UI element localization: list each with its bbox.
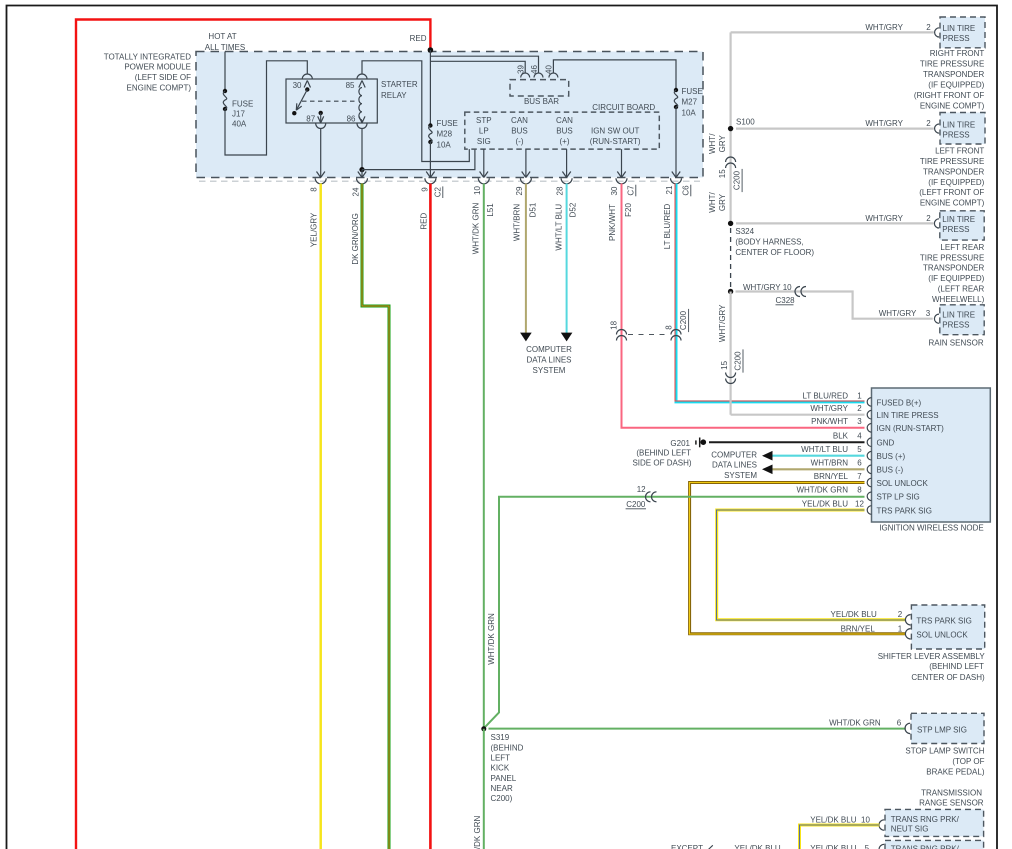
svg-text:TRANSPONDER: TRANSPONDER <box>923 167 985 176</box>
svg-text:86: 86 <box>347 115 356 124</box>
svg-text:C328: C328 <box>776 296 796 305</box>
svg-text:28: 28 <box>556 186 565 195</box>
svg-text:WHT/BRN: WHT/BRN <box>513 204 522 242</box>
svg-text:BUS (+): BUS (+) <box>877 452 906 461</box>
svg-text:(IF EQUIPPED): (IF EQUIPPED) <box>928 178 984 187</box>
svg-text:LEFT REAR: LEFT REAR <box>940 243 984 252</box>
svg-text:LIN TIRE: LIN TIRE <box>942 215 975 224</box>
svg-text:DATA LINES: DATA LINES <box>712 461 757 470</box>
svg-text:1: 1 <box>898 624 903 633</box>
svg-text:LEFT FRONT: LEFT FRONT <box>935 147 984 156</box>
svg-text:12: 12 <box>855 499 864 508</box>
svg-text:WHT/LT BLU: WHT/LT BLU <box>801 445 848 454</box>
svg-text:15: 15 <box>720 360 729 369</box>
svg-text:S100: S100 <box>736 118 755 127</box>
svg-text:LIN TIRE: LIN TIRE <box>943 24 976 33</box>
svg-text:YEL/GRY: YEL/GRY <box>310 212 319 247</box>
svg-text:GRY: GRY <box>718 193 727 211</box>
svg-text:YEL/DK BLU: YEL/DK BLU <box>734 844 780 849</box>
svg-text:8: 8 <box>857 486 862 495</box>
svg-text:87: 87 <box>306 115 315 124</box>
svg-text:10: 10 <box>473 186 482 195</box>
svg-text:10: 10 <box>861 815 870 824</box>
svg-text:LT BLU/RED: LT BLU/RED <box>803 391 849 400</box>
svg-text:ENGINE COMPT): ENGINE COMPT) <box>920 199 985 208</box>
svg-text:30: 30 <box>293 81 302 90</box>
svg-text:WHT/GRY: WHT/GRY <box>865 23 903 32</box>
svg-text:M27: M27 <box>682 98 698 107</box>
svg-text:3: 3 <box>926 309 931 318</box>
svg-text:WHT/GRY: WHT/GRY <box>865 214 903 223</box>
svg-text:WHT/DK GRN: WHT/DK GRN <box>829 719 881 728</box>
svg-text:YEL/DK BLU: YEL/DK BLU <box>810 844 856 849</box>
svg-text:12: 12 <box>637 485 646 494</box>
svg-text:PRESS: PRESS <box>942 225 969 234</box>
svg-text:C200): C200) <box>491 794 513 803</box>
svg-text:29: 29 <box>515 186 524 195</box>
svg-text:WHT/BRN: WHT/BRN <box>811 459 849 468</box>
svg-text:30: 30 <box>610 186 619 195</box>
svg-text:(IF EQUIPPED): (IF EQUIPPED) <box>928 80 984 89</box>
svg-text:2: 2 <box>926 119 931 128</box>
svg-text:18: 18 <box>610 320 619 329</box>
svg-text:(-): (-) <box>516 137 524 146</box>
svg-text:RANGE SENSOR: RANGE SENSOR <box>919 799 984 808</box>
svg-text:STARTER: STARTER <box>381 80 418 89</box>
svg-text:S319: S319 <box>491 733 510 742</box>
svg-text:3: 3 <box>857 417 862 426</box>
svg-text:STP: STP <box>476 116 492 125</box>
svg-text:YEL/DK BLU: YEL/DK BLU <box>810 815 856 824</box>
svg-text:D52: D52 <box>569 202 578 217</box>
svg-text:BUS (-): BUS (-) <box>877 466 904 475</box>
svg-text:C200: C200 <box>626 500 646 509</box>
svg-text:DK GRN/ORG: DK GRN/ORG <box>351 213 360 265</box>
svg-text:C2: C2 <box>433 187 442 198</box>
svg-text:WHT/DK GRN: WHT/DK GRN <box>487 613 496 665</box>
svg-text:7: 7 <box>857 472 862 481</box>
svg-text:46: 46 <box>530 65 539 74</box>
svg-text:LP: LP <box>479 126 489 135</box>
svg-text:C200: C200 <box>734 351 743 371</box>
svg-text:85: 85 <box>346 81 355 90</box>
svg-text:DATA LINES: DATA LINES <box>526 356 571 365</box>
svg-text:KICK: KICK <box>491 764 510 773</box>
svg-text:STOP LAMP SWITCH: STOP LAMP SWITCH <box>905 747 984 756</box>
svg-text:CENTER OF DASH): CENTER OF DASH) <box>911 673 985 682</box>
svg-text:40: 40 <box>545 65 554 74</box>
svg-text:24: 24 <box>352 187 361 196</box>
svg-text:ALL TIMES: ALL TIMES <box>205 43 245 52</box>
svg-text:TIRE PRESSURE: TIRE PRESSURE <box>920 253 984 262</box>
svg-text:WHT/DK GRN: WHT/DK GRN <box>472 203 481 255</box>
svg-text:2: 2 <box>926 23 931 32</box>
svg-text:NEAR: NEAR <box>491 784 513 793</box>
svg-text:10A: 10A <box>682 109 697 118</box>
svg-text:YEL/DK BLU: YEL/DK BLU <box>802 499 848 508</box>
svg-text:WHT/: WHT/ <box>708 192 717 213</box>
svg-text:FUSE: FUSE <box>437 119 458 128</box>
svg-text:BRN/YEL: BRN/YEL <box>841 624 876 633</box>
svg-text:FUSE: FUSE <box>682 87 703 96</box>
svg-text:COMPUTER: COMPUTER <box>526 345 572 354</box>
svg-text:J17: J17 <box>232 109 245 118</box>
svg-text:WHT/GRY: WHT/GRY <box>718 304 727 342</box>
svg-text:F20: F20 <box>624 203 633 217</box>
svg-text:8: 8 <box>310 187 319 192</box>
svg-text:FUSED B(+): FUSED B(+) <box>877 398 922 407</box>
svg-text:TRANS RNG PRK/: TRANS RNG PRK/ <box>891 845 960 849</box>
svg-text:G201: G201 <box>670 439 690 448</box>
svg-text:STP LMP SIG: STP LMP SIG <box>917 726 967 735</box>
svg-text:(+): (+) <box>560 137 570 146</box>
svg-text:WHT/GRY: WHT/GRY <box>865 119 903 128</box>
svg-text:RELAY: RELAY <box>381 91 407 100</box>
svg-text:TIRE PRESSURE: TIRE PRESSURE <box>920 157 984 166</box>
svg-text:PRESS: PRESS <box>943 34 970 43</box>
svg-text:WHT/DK GRN: WHT/DK GRN <box>473 816 482 849</box>
svg-text:(BEHIND LEFT: (BEHIND LEFT <box>636 448 691 457</box>
svg-text:C200: C200 <box>679 310 688 330</box>
svg-text:LIN TIRE: LIN TIRE <box>943 120 976 129</box>
svg-text:4: 4 <box>857 432 862 441</box>
svg-text:15: 15 <box>718 169 727 178</box>
svg-text:M28: M28 <box>437 129 453 138</box>
svg-text:RAIN SENSOR: RAIN SENSOR <box>928 339 983 348</box>
svg-text:LEFT: LEFT <box>491 754 511 763</box>
svg-text:RIGHT FRONT: RIGHT FRONT <box>930 49 985 58</box>
svg-text:WHT/DK GRN: WHT/DK GRN <box>796 486 848 495</box>
svg-text:1: 1 <box>857 391 862 400</box>
svg-text:(LEFT SIDE OF: (LEFT SIDE OF <box>135 73 191 82</box>
svg-text:6: 6 <box>897 719 902 728</box>
svg-text:21: 21 <box>665 185 674 194</box>
svg-text:BUS: BUS <box>511 126 527 135</box>
svg-text:TRS PARK SIG: TRS PARK SIG <box>916 616 971 625</box>
svg-text:BRN/YEL: BRN/YEL <box>814 472 849 481</box>
svg-text:RED: RED <box>410 34 427 43</box>
svg-text:SOL UNLOCK: SOL UNLOCK <box>877 479 929 488</box>
svg-text:(TOP OF: (TOP OF <box>952 757 984 766</box>
svg-text:WHEELWELL): WHEELWELL) <box>932 295 985 304</box>
svg-text:TRANSPONDER: TRANSPONDER <box>923 70 985 79</box>
svg-text:(RIGHT FRONT OF: (RIGHT FRONT OF <box>914 91 984 100</box>
svg-text:TRANS RNG PRK/: TRANS RNG PRK/ <box>891 815 960 824</box>
svg-text:TIRE PRESSURE: TIRE PRESSURE <box>920 59 984 68</box>
svg-text:SYSTEM: SYSTEM <box>724 471 757 480</box>
svg-text:L51: L51 <box>486 203 495 217</box>
svg-text:SIG: SIG <box>477 137 491 146</box>
svg-text:2: 2 <box>926 214 931 223</box>
svg-text:(LEFT REAR: (LEFT REAR <box>938 285 985 294</box>
svg-text:LIN TIRE: LIN TIRE <box>942 310 975 319</box>
svg-text:CAN: CAN <box>511 116 528 125</box>
svg-text:TRANSPONDER: TRANSPONDER <box>923 264 985 273</box>
svg-text:WHT/GRY: WHT/GRY <box>810 404 848 413</box>
svg-text:WHT/: WHT/ <box>708 133 717 154</box>
svg-text:(BEHIND: (BEHIND <box>491 743 524 752</box>
svg-text:GRY: GRY <box>718 135 727 153</box>
svg-text:2: 2 <box>857 404 862 413</box>
svg-text:PRESS: PRESS <box>942 321 969 330</box>
svg-text:C6: C6 <box>681 185 690 196</box>
svg-text:BUS BAR: BUS BAR <box>524 97 559 106</box>
svg-text:C200: C200 <box>733 170 742 190</box>
svg-text:PNK/WHT: PNK/WHT <box>608 204 617 241</box>
svg-text:40A: 40A <box>232 120 247 129</box>
svg-text:(LEFT FRONT OF: (LEFT FRONT OF <box>919 188 984 197</box>
svg-text:CENTER OF FLOOR): CENTER OF FLOOR) <box>735 248 814 257</box>
svg-text:C7: C7 <box>626 185 635 196</box>
svg-text:WHT/LT BLU: WHT/LT BLU <box>555 204 564 251</box>
svg-text:8: 8 <box>665 325 674 330</box>
svg-text:WHT/GRY: WHT/GRY <box>879 309 917 318</box>
svg-text:LT BLU/RED: LT BLU/RED <box>663 204 672 250</box>
svg-text:5: 5 <box>857 445 862 454</box>
svg-text:TRANSMISSION: TRANSMISSION <box>921 789 982 798</box>
svg-text:ENGINE COMPT): ENGINE COMPT) <box>920 101 985 110</box>
svg-text:(BEHIND LEFT: (BEHIND LEFT <box>929 662 984 671</box>
svg-text:TOTALLY INTEGRATED: TOTALLY INTEGRATED <box>104 52 192 61</box>
svg-text:BLK: BLK <box>833 432 849 441</box>
svg-text:PANEL: PANEL <box>491 774 517 783</box>
svg-text:CAN: CAN <box>556 116 573 125</box>
svg-text:PNK/WHT: PNK/WHT <box>811 417 848 426</box>
svg-text:SYSTEM: SYSTEM <box>533 366 566 375</box>
svg-text:S324: S324 <box>735 227 754 236</box>
svg-text:IGN SW OUT: IGN SW OUT <box>591 126 640 135</box>
svg-text:ENGINE COMPT): ENGINE COMPT) <box>127 84 192 93</box>
svg-text:STP LP SIG: STP LP SIG <box>877 493 920 502</box>
svg-text:(RUN-START): (RUN-START) <box>590 137 641 146</box>
svg-text:HOT AT: HOT AT <box>208 32 236 41</box>
svg-text:SIDE OF DASH): SIDE OF DASH) <box>632 459 691 468</box>
svg-text:(IF EQUIPPED): (IF EQUIPPED) <box>928 274 984 283</box>
svg-text:YEL/DK BLU: YEL/DK BLU <box>831 610 877 619</box>
svg-text:SHIFTER LEVER ASSEMBLY: SHIFTER LEVER ASSEMBLY <box>878 652 986 661</box>
svg-text:CIRCUIT BOARD: CIRCUIT BOARD <box>592 103 655 112</box>
svg-text:EXCEPT: EXCEPT <box>671 844 703 849</box>
svg-text:9: 9 <box>420 187 429 192</box>
svg-text:NEUT SIG: NEUT SIG <box>891 824 929 833</box>
svg-text:2: 2 <box>898 610 903 619</box>
svg-text:LIN TIRE PRESS: LIN TIRE PRESS <box>877 411 939 420</box>
svg-text:POWER MODULE: POWER MODULE <box>124 63 191 72</box>
svg-text:D51: D51 <box>529 202 538 217</box>
svg-text:WHT/GRY 10: WHT/GRY 10 <box>743 283 792 292</box>
svg-text:IGNITION WIRELESS NODE: IGNITION WIRELESS NODE <box>879 523 983 532</box>
svg-text:BRAKE PEDAL): BRAKE PEDAL) <box>926 767 985 776</box>
svg-text:IGN (RUN-START): IGN (RUN-START) <box>877 424 945 433</box>
svg-text:GND: GND <box>877 439 895 448</box>
svg-text:BUS: BUS <box>556 126 572 135</box>
svg-text:6: 6 <box>857 459 862 468</box>
svg-text:39: 39 <box>517 65 526 74</box>
svg-text:10A: 10A <box>437 140 452 149</box>
svg-text:TRS PARK SIG: TRS PARK SIG <box>877 506 932 515</box>
svg-text:RED: RED <box>420 213 429 230</box>
svg-text:COMPUTER: COMPUTER <box>711 450 757 459</box>
svg-text:PRESS: PRESS <box>943 130 970 139</box>
svg-text:SOL UNLOCK: SOL UNLOCK <box>916 631 968 640</box>
svg-text:FUSE: FUSE <box>232 100 253 109</box>
svg-text:5: 5 <box>865 844 870 849</box>
svg-text:(BODY HARNESS,: (BODY HARNESS, <box>735 238 803 247</box>
